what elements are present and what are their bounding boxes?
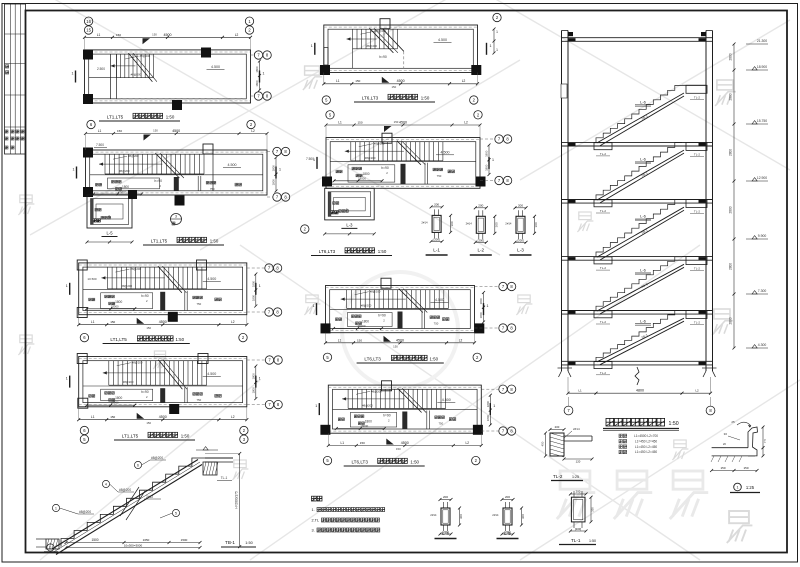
P4 grid bubbles [80,333,88,341]
svg-text:L2: L2 [464,121,468,125]
svg-text:L-4: L-4 [442,531,449,536]
svg-text:#8@200: #8@200 [132,361,143,365]
P5 column squares [77,354,87,364]
svg-text:1800: 1800 [271,165,275,172]
svg-text:1800: 1800 [251,280,255,287]
P2 detail circle 3 [171,214,182,225]
TB-1 bottom ref circle [47,544,54,551]
svg-text:1: 1 [315,404,317,408]
section bottom dim + bubbles [568,392,711,394]
M3 hatched column [398,312,403,329]
stair plan M1 outer walls [324,25,478,73]
P1 stair cut line [128,53,152,82]
svg-text:#8@200: #8@200 [367,44,378,48]
svg-text:4.500: 4.500 [442,398,451,402]
svg-text:30: 30 [724,432,728,436]
svg-text:200: 200 [576,490,581,494]
M2 landing band rooms [330,161,476,163]
svg-text:L-5: L-5 [106,231,113,236]
P5 dimension line [79,419,247,421]
M1 stair cut line [369,28,393,53]
TB-1 steps [61,458,205,547]
svg-text:L1=4500 L2=700: L1=4500 L2=700 [634,434,658,438]
flight 1 bottom landing beam [594,143,612,150]
flight 5 top landing beam TL-2 [682,310,706,312]
svg-text:L2: L2 [235,33,239,37]
P1 section cut marks [75,71,77,83]
section top parapet [568,32,573,36]
left title strip [5,4,26,154]
svg-text:750: 750 [438,422,443,426]
svg-text:TL-2: TL-2 [600,371,607,375]
P4 column squares [77,260,87,270]
svg-text:L1=450 L2=450: L1=450 L2=450 [635,450,658,454]
svg-text:h=90: h=90 [378,314,386,318]
M1 dimension line [324,83,478,85]
svg-text:18.900: 18.900 [757,65,767,69]
M2 dim flag [384,126,392,132]
svg-text:L1: L1 [338,121,342,125]
P5 landing band rooms [83,385,243,387]
svg-text:1.: 1. [312,508,315,512]
M1 tread annotation leaders [361,31,375,34]
P4 hatched column [160,292,165,311]
svg-text:L-1: L-1 [433,248,440,253]
P4 wall center dashes [79,264,247,266]
M2 stair treads [350,142,352,161]
svg-text:7.300: 7.300 [758,289,767,293]
svg-text:#8@200: #8@200 [374,142,385,146]
P5 side bubble pairs [265,356,273,364]
svg-text:L1: L1 [91,415,95,419]
TB-1 flight slab diagonals [52,460,198,550]
P2 band text blobs [112,180,115,183]
svg-text:750: 750 [210,187,215,191]
svg-text:#8@200: #8@200 [128,154,139,158]
P5 dim flag [137,413,145,419]
TL-2 leader [564,431,572,438]
section flight 1 [596,86,682,143]
svg-text:L2: L2 [695,389,699,393]
svg-text:4500: 4500 [401,441,409,445]
svg-text:#8@200: #8@200 [119,488,131,492]
svg-text:750: 750 [196,398,201,402]
svg-text:2#14: 2#14 [573,427,580,431]
P2 tread annotation leaders [113,156,127,159]
svg-text:150: 150 [394,120,399,124]
P4 dimension line [79,324,247,326]
svg-text:1:50: 1:50 [210,239,219,244]
svg-text:TL-1: TL-1 [571,538,581,543]
svg-text:4.500: 4.500 [207,372,216,376]
svg-text:150: 150 [360,441,365,445]
P5 band text blobs [105,392,108,395]
svg-text:4500: 4500 [172,129,180,133]
svg-text:150: 150 [357,121,362,125]
svg-text:TL-2: TL-2 [694,267,701,271]
svg-text:300: 300 [494,222,498,227]
svg-text:4500: 4500 [396,338,404,342]
section floor slabs [562,37,713,39]
svg-text:1800: 1800 [365,420,372,424]
svg-text:#8@200: #8@200 [121,284,132,288]
P4 side bubble pairs [265,264,273,272]
svg-text:TL-2: TL-2 [600,152,607,156]
svg-text:#8@200: #8@200 [130,267,141,271]
svg-text:1: 1 [263,72,265,76]
svg-text:150: 150 [146,326,151,330]
svg-text:LT6,LT3: LT6,LT3 [319,249,336,254]
svg-text:#8@200: #8@200 [79,510,91,514]
detail 1 leader texts [728,436,740,440]
svg-text:L-6: L-6 [640,318,647,323]
M3 wall center dashes [326,287,475,289]
svg-text:1: 1 [313,304,315,308]
M2 walk line arrow [345,150,404,152]
svg-text:2800: 2800 [729,206,733,213]
svg-text:2#12: 2#12 [146,495,153,499]
M4 wall center dashes [328,386,481,388]
svg-text:1800: 1800 [255,80,259,87]
strip text blobs [6,65,9,68]
svg-text:2#14: 2#14 [492,513,499,517]
P5 tread annotation leaders [117,363,131,366]
detail 1 curved arrow [737,422,751,426]
svg-text:L2: L2 [466,441,470,445]
svg-text:LT6,LT3: LT6,LT3 [351,460,368,465]
svg-text:4.300: 4.300 [758,343,767,347]
svg-text:150: 150 [152,32,157,36]
svg-text:1500: 1500 [181,538,188,542]
section left wall [561,31,563,372]
detail L-3 section [516,216,525,233]
M1 grid bubbles [322,96,330,104]
section level marks [746,69,768,71]
svg-text:4500: 4500 [159,320,167,324]
svg-text:1:50: 1:50 [378,249,387,254]
flight 4 top landing beam TL-2 [682,256,706,258]
svg-text:4.500: 4.500 [438,38,447,42]
M4 band text blobs [354,415,357,418]
svg-text:150: 150 [116,33,121,37]
P5 walk line arrow [103,372,166,374]
svg-text:16: 16 [86,19,91,24]
M2 wall center dashes [326,139,480,141]
svg-text:15: 15 [86,28,91,33]
svg-text:4500: 4500 [399,121,407,125]
TB-1 right vertical dim [239,454,241,547]
P5 grid bubbles [80,426,88,434]
svg-text:[200]: [200] [433,237,439,241]
M3 column squares [381,278,391,288]
section foundation stubs [559,371,562,377]
svg-text:750: 750 [434,322,439,326]
svg-text:1:25: 1:25 [746,485,755,490]
svg-text:4500: 4500 [164,33,172,37]
svg-text:1: 1 [492,158,494,162]
M3 dim flag [384,336,392,342]
flight 4 bottom landing beam [594,311,612,318]
svg-text:15.750: 15.750 [757,119,767,123]
svg-text:L-5: L-5 [504,531,511,536]
P1 column squares [83,50,93,60]
M4 right side vertical dim [489,395,491,425]
svg-text:150: 150 [393,344,398,348]
P2 dimension line [86,133,268,135]
M3 band text blobs [352,315,355,318]
M2 band text blobs [352,167,355,170]
M1 column squares [380,19,390,29]
M4 dimension line [328,445,481,447]
M4 hatched column [402,412,407,430]
detail L-2 section [476,216,485,233]
svg-text:#8@200: #8@200 [151,456,163,460]
svg-text:LT6,LT3: LT6,LT3 [362,96,379,101]
M1 wall center dashes [324,26,478,28]
svg-text:1:50: 1:50 [430,357,439,362]
svg-text:1800: 1800 [115,396,122,400]
svg-text:1: 1 [72,72,74,76]
P1 walk line arrow [111,65,136,67]
svg-text:200: 200 [434,202,439,206]
svg-text:4800: 4800 [636,389,644,393]
svg-text:1: 1 [496,30,498,34]
P2 hatched column [174,177,179,191]
M2 stair cut line [397,141,421,165]
svg-text:200: 200 [443,495,448,499]
P4 stair treads [106,267,108,289]
stair plan P5 outer walls [79,357,247,407]
svg-text:LT1,LT5: LT1,LT5 [110,337,127,342]
section table [619,434,622,437]
M1 interior room line [352,49,354,69]
stair plan P4 outer walls [79,263,247,315]
svg-text:200: 200 [555,425,560,429]
M2 right side vertical dim [488,145,490,175]
svg-text:1: 1 [73,168,75,172]
stair plan M2 outer walls [326,138,480,189]
M2 column squares [382,133,392,143]
svg-text:#8@200: #8@200 [361,304,372,308]
svg-text:150: 150 [153,129,158,133]
P4 tread annotation leaders [115,269,129,272]
TB-1 top landing [205,457,233,459]
stair plan M4 outer walls [328,385,481,433]
svg-text:H=2800/175: H=2800/175 [235,491,239,509]
M4 walk line arrow [342,398,405,400]
svg-text:1800: 1800 [362,320,369,324]
svg-text:TL-1: TL-1 [221,476,228,480]
P4 landing band rooms [83,289,243,291]
svg-text:LT1,LT5: LT1,LT5 [107,115,124,120]
svg-text:1800: 1800 [362,172,369,176]
P1 grid bubbles [84,17,92,25]
P5 right side vertical dim [255,366,257,399]
svg-text:4.500: 4.500 [441,150,450,154]
P2 stair cut line [155,153,179,178]
M2 grid bubbles [326,111,334,119]
svg-text:21.300: 21.300 [757,39,767,43]
svg-text:TL-2: TL-2 [600,209,607,213]
svg-text:L-6: L-6 [640,99,647,104]
svg-text:L2: L2 [251,129,255,133]
svg-text:150: 150 [110,320,115,324]
svg-text:h=90: h=90 [381,166,389,170]
svg-text:L1: L1 [336,79,340,83]
svg-text:2#14: 2#14 [421,220,428,224]
svg-text:1:50: 1:50 [176,337,185,342]
svg-text:2800: 2800 [729,93,733,100]
P2 side bubble pairs [273,147,281,155]
M4 dim flag [386,439,394,445]
svg-text:1800: 1800 [486,401,490,408]
svg-text:TL-2: TL-2 [553,474,563,479]
TB-1 bottom beam [46,539,59,549]
svg-text:150: 150 [355,79,360,83]
svg-text:1:50: 1:50 [589,539,596,543]
svg-text:L1: L1 [91,320,95,324]
TB-1 bottom dims [66,542,200,544]
svg-text:1: 1 [66,284,68,288]
svg-text:300: 300 [534,222,538,227]
svg-text:L2: L2 [231,415,235,419]
svg-text:4.500: 4.500 [228,163,237,167]
svg-text:150: 150 [743,466,748,470]
svg-text:L-6: L-6 [640,157,647,162]
P2 corridor inner line [212,154,214,191]
svg-text:2: 2 [50,546,52,550]
svg-text:2#14: 2#14 [430,513,437,517]
detail 1 dims [712,470,757,472]
section right dim line [733,44,735,348]
svg-text:#8@200: #8@200 [362,404,373,408]
P5 section cut marks [69,376,71,388]
M4 stair cut line [398,388,422,412]
P4 right side vertical dim [255,274,257,306]
P2 wall center dashes [86,151,268,153]
svg-text:L-3: L-3 [346,222,353,227]
M2 section cut marks [316,157,318,169]
svg-text:#8@200: #8@200 [123,380,134,384]
M1 left small wall rect [324,48,328,66]
svg-text:750: 750 [437,174,442,178]
svg-text:L1: L1 [341,441,345,445]
flight 1 top landing beam TL-2 [682,84,706,86]
M3 stair cut line [399,289,423,313]
svg-text:150: 150 [117,129,122,133]
section break mark [635,367,639,385]
svg-text:1: 1 [279,168,281,172]
svg-text:L-6: L-6 [640,214,647,219]
svg-text:1: 1 [259,377,261,381]
svg-text:L1: L1 [98,129,102,133]
svg-text:TL-2: TL-2 [600,320,607,324]
P5 stair treads [108,361,110,386]
M2 lower extension shaft [325,188,375,220]
svg-text:1: 1 [259,284,261,288]
svg-text:150: 150 [396,447,401,451]
svg-text:#8@200: #8@200 [131,73,142,77]
P4 walk line arrow [101,277,164,279]
svg-text:1800: 1800 [251,294,255,301]
svg-text:1800: 1800 [251,373,255,380]
M1 right side section marks [493,29,495,53]
svg-text:1: 1 [55,506,57,510]
svg-text:2800: 2800 [729,53,733,60]
P5 wall center dashes [79,358,247,360]
flight 2 bottom landing beam [594,200,612,207]
svg-text:LT1,LT5: LT1,LT5 [151,239,168,244]
P4 section cut marks [69,283,71,295]
M2 hatched column [401,164,406,184]
svg-text:150: 150 [110,415,115,419]
section flight 2 [596,143,682,200]
svg-text:1:50: 1:50 [669,421,679,427]
svg-text:1:50: 1:50 [245,541,252,545]
M2 dimension line [326,124,480,126]
svg-text:1800: 1800 [485,164,489,171]
svg-text:2800: 2800 [729,317,733,324]
svg-text:200: 200 [518,203,523,207]
svg-text:L1=450 L2=450: L1=450 L2=450 [635,439,658,443]
svg-text:2#14: 2#14 [466,221,473,225]
svg-text:TB-1: TB-1 [225,540,235,545]
flight 3 top landing beam TL-2 [682,199,706,201]
watermark diagonal lines [30,0,480,235]
P2 landing band rooms [90,174,263,176]
left wall openings [561,84,567,98]
P1 bottom mid lines [117,98,247,100]
svg-text:5: 5 [175,511,177,515]
svg-text:1800: 1800 [255,66,259,73]
M4 section cut marks [318,403,320,415]
M1 stair treads [352,29,354,49]
svg-text:7.500: 7.500 [306,157,314,161]
P4 stair cut line [158,266,182,293]
P2 walk line arrow [99,163,162,165]
M2 tread annotation leaders [359,144,373,147]
svg-text:1: 1 [311,44,313,48]
M2 side bubble pairs [495,135,503,143]
svg-text:200: 200 [478,203,483,207]
svg-text:1650: 1650 [143,538,150,542]
svg-text:h=90: h=90 [141,294,149,298]
svg-text:#8@200: #8@200 [140,54,151,58]
svg-text:TL-2: TL-2 [600,266,607,270]
flight 3 bottom landing beam [594,257,612,264]
M4 tread annotation leaders [356,391,370,394]
svg-text:1800: 1800 [122,185,129,189]
M4 stair treads [347,389,349,408]
stair plan P2 outer walls [86,150,268,195]
svg-text:L1=450 L2=450: L1=450 L2=450 [635,445,658,449]
svg-text:300: 300 [450,221,454,226]
detail 1 hatch [711,456,714,462]
flight 2 top landing beam TL-2 [682,141,706,143]
M3 landing band rooms [330,308,471,310]
stair plan M3 outer walls [326,286,475,333]
svg-text:2.500: 2.500 [97,67,105,71]
section flight 4 [596,257,682,311]
svg-text:150: 150 [146,421,151,425]
svg-text:[200]: [200] [575,527,581,531]
svg-text:150: 150 [720,466,725,470]
svg-text:25: 25 [731,420,735,424]
watermark ring center [342,272,458,388]
svg-text:1800: 1800 [271,179,275,186]
svg-text:L-6: L-6 [640,268,647,273]
svg-text:L2: L2 [459,338,463,342]
